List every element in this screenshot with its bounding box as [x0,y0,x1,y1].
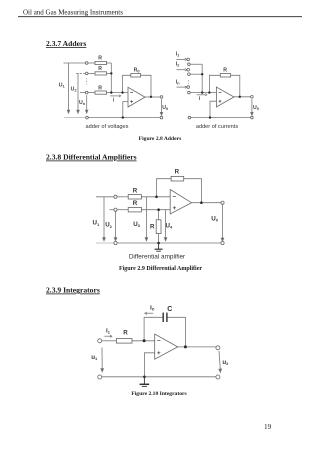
svg-text:In: In [176,80,180,86]
svg-text:R: R [98,55,102,61]
ellipsis continuation mark right [188,80,190,86]
wire input to resistor [102,340,117,342]
svg-text:i: i [199,96,201,102]
svg-text:U2: U2 [71,87,78,93]
junction feedback/output right [239,96,241,98]
wire ground resistor top [158,210,160,220]
wire ground resistor bottom [158,234,160,243]
svg-text:Oil and Gas Measuring Instrume: Oil and Gas Measuring Instruments [23,9,123,17]
op-amp plus sign [130,101,133,103]
terminal I2 return [188,73,191,76]
svg-text:R: R [98,66,102,72]
wire feedback to output diff [184,179,202,203]
svg-text:u1: u1 [91,354,98,361]
svg-text:I2: I2 [176,62,180,68]
wire current input n [177,86,186,88]
svg-text:u2: u2 [222,359,229,366]
resistor R (branch n) [95,91,107,94]
input arrow I2 [185,69,187,71]
op-amp U4 triangle [155,334,178,359]
header rule [18,16,302,18]
svg-text:R: R [98,85,102,91]
voltage arrow u2 int [219,351,220,370]
ellipsis continuation mark [86,78,88,84]
voltage arrow U2 diff [115,212,117,239]
input arrow In [185,86,187,88]
wire current bus [201,64,203,92]
svg-text:R: R [133,187,138,194]
wire feedback riser [123,75,131,92]
svg-text:ic: ic [150,304,155,312]
svg-text:Differential amplifier: Differential amplifier [129,253,186,260]
voltage arrow Un [86,95,88,110]
op-amp U1 triangle [128,87,145,107]
junction ground rail right [209,116,211,118]
svg-text:U2: U2 [105,222,112,229]
junction bus/branch n [110,91,112,93]
svg-text:i: i [113,98,115,104]
svg-text:C: C [167,306,172,313]
resistor R input 2 [128,208,141,212]
wire resistor to inverting input [132,340,155,342]
terminal input U1 [114,195,117,198]
wire feedback to output right [231,75,240,97]
junction bus/branch2 right [201,73,203,75]
svg-text:Figure 2.8 Adders: Figure 2.8 Adders [139,136,182,142]
voltage arrow U0 diff [222,205,224,239]
wire bottom rail diff [96,242,114,244]
terminal bottom right int [216,375,220,379]
wire summing node to op-amp input [111,92,128,94]
wire summing bus [110,63,112,93]
junction ground rail diff [157,242,160,245]
wire source n to op-amp input [190,92,216,94]
terminal input U2 [114,208,117,211]
svg-text:R: R [223,68,227,74]
wire input branch U2 [110,209,115,211]
svg-text:adder of currents: adder of currents [196,124,238,130]
terminal output diff [221,201,224,204]
resistor R int [116,339,132,344]
terminal I1 return [188,63,191,66]
svg-text:Un: Un [79,100,86,106]
resistor R feedback right [220,74,230,77]
wire feedback riser diff [157,179,172,197]
current arrow i [110,95,121,97]
voltage arrow u1 int [101,348,222,373]
current arrow ic [146,312,153,314]
terminal input n [85,91,88,94]
terminal input 2 [85,72,88,75]
svg-text:U1: U1 [93,220,100,227]
wire bottom rail right [191,117,251,119]
terminal bottom left diff [114,241,117,244]
terminal I2 in [187,68,190,71]
svg-text:Figure 2.9 Differential Amplif: Figure 2.9 Differential Amplifier [119,266,202,272]
svg-text:R: R [150,224,155,231]
svg-text:Figure 2.10 Integrators: Figure 2.10 Integrators [131,391,187,397]
svg-text:U1: U1 [59,82,66,88]
wire current input 2 [177,69,186,71]
terminal bottom right diff [221,241,224,244]
resistor R0 feedback [131,74,141,77]
wire R1 to inverting input [141,196,170,198]
wire bottom rail int [102,376,216,378]
wire input branch n [80,92,86,94]
current arrow i1 [105,312,154,337]
current arrow i right [197,94,205,96]
junction feedback tap right [208,91,210,93]
wire capacitor riser [144,317,163,341]
svg-text:U0: U0 [162,105,169,111]
voltage arrow U0 output [161,99,163,112]
wire op-amp output right [234,96,251,98]
junction feedback tap [121,91,123,93]
terminal bottom right right circuit [251,116,254,119]
junction feedback/output [150,96,152,98]
wire capacitor to output [167,317,185,347]
voltage arrow U1 [67,63,162,115]
junction capacitor tap [143,339,146,342]
wire source 1 to bus [190,63,202,65]
terminal In return [188,91,191,94]
wire resistor outputs to summing bus [107,62,112,64]
wire op-amp output int [178,346,216,348]
junction inverting node [155,196,158,199]
junction ground rail [122,116,124,118]
op-amp right minus sign [219,92,222,102]
wire feedback riser right [209,75,220,92]
svg-text:U0: U0 [253,105,260,111]
terminal In in [187,86,190,89]
svg-text:19: 19 [264,423,272,431]
resistor R (branch 2) [95,72,107,75]
svg-text:I1: I1 [176,51,180,57]
resistor R feedback diff [171,176,184,181]
resistor R (branch 1) [95,61,107,64]
svg-text:i1: i1 [106,327,111,334]
terminal bottom left right circuit [188,116,191,119]
ground symbol diff [155,243,163,251]
op-amp diff minus sign [173,197,176,210]
wire input branch U1 [96,196,114,198]
wire op-amp noninverting input to ground rail [123,102,128,118]
junction bus/input line right [201,91,203,93]
wire input branch 2 [76,72,86,74]
terminal output int [216,346,220,350]
wire op-amp output diff [192,202,222,204]
wire noninverting input to ground [144,353,154,377]
svg-text:R: R [175,169,180,176]
svg-text:R: R [123,330,128,337]
terminal bottom left [86,116,89,119]
svg-text:adder of voltages: adder of voltages [86,124,129,130]
wire bottom rail [64,117,86,119]
svg-text:2.3.8 Differential Amplifiers: 2.3.8 Differential Amplifiers [46,153,137,162]
junction bus/branch2 [110,72,112,74]
resistor R input 1 [128,195,141,199]
resistor R to ground [156,220,161,234]
input arrow I1 [185,58,207,96]
junction output int [184,345,187,348]
wire R2 to noninverting input [141,209,170,211]
svg-text:U4: U4 [166,222,173,229]
op-amp U2 triangle [216,87,234,107]
svg-text:2.3.9 Integrators: 2.3.9 Integrators [46,286,100,295]
svg-text:U3: U3 [133,221,140,228]
op-amp int plus sign [157,352,160,354]
op-amp int minus sign [157,341,160,355]
junction feedback/output diff [200,201,203,204]
wire feedback to output [141,75,151,97]
wire source 2 to bus [190,73,202,75]
terminal output top [160,96,163,99]
terminal I1 in [187,58,190,61]
svg-text:2.3.7 Adders: 2.3.7 Adders [46,39,86,48]
wire current input 1 [177,58,186,60]
terminal bottom left int [98,375,102,379]
voltage arrow U1 diff [103,197,224,241]
svg-text:R: R [133,200,138,207]
wire input branch 1 [64,62,86,64]
terminal input 1 [85,62,88,65]
op-amp diff plus sign [173,207,176,209]
op-amp minus sign [130,93,133,103]
junction noninverting node [157,208,160,211]
junction ground int [143,376,146,379]
ground symbol int [140,377,150,387]
op-amp right plus sign [219,100,222,102]
capacitor C plates [163,313,167,322]
voltage arrow U0 right [251,99,253,115]
svg-text:U0: U0 [211,215,218,222]
voltage arrow U2 [77,73,79,110]
terminal bottom right [160,116,163,119]
op-amp U3 triangle [170,190,191,215]
voltage arrow U3 diff [145,197,147,238]
svg-text:R0: R0 [134,68,141,74]
terminal output top right [251,96,254,99]
wire op-amp output [145,96,160,98]
terminal input int [98,339,102,343]
wire noninverting input to rail right [210,101,216,117]
voltage arrow U4 diff [165,210,167,238]
